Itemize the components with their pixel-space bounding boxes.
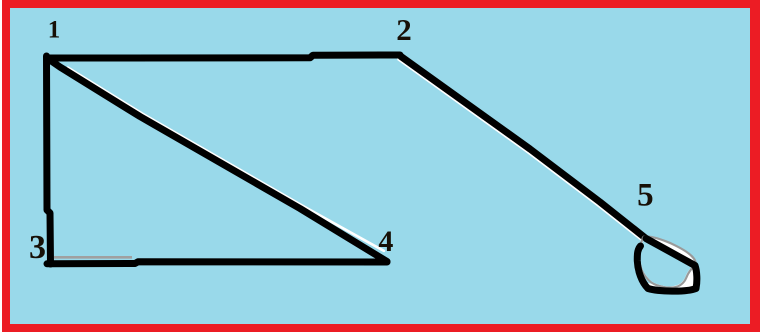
svg-text:4: 4: [378, 225, 393, 258]
loop at node 5: black outline stroke: [637, 239, 697, 292]
wire 1-4 (diagonal): [47, 58, 387, 262]
loop at node 5: white gap fill lower right: [646, 258, 699, 294]
white highlight above wire 1-4: [68, 68, 384, 251]
wire 1-2 (top edge): [47, 55, 400, 58]
svg-text:3: 3: [29, 229, 46, 266]
svg-text:5: 5: [637, 178, 654, 214]
svg-text:2: 2: [396, 12, 412, 47]
wire 1-3 (left edge): [47, 56, 51, 264]
wire 3-4 (bottom edge): [47, 262, 387, 264]
wire 2-5 (diagonal): [401, 57, 646, 239]
gray double-line above wire 3-4: [54, 256, 132, 259]
svg-text:1: 1: [48, 16, 61, 43]
white highlight below wire 2-5: [399, 60, 644, 242]
loop at node 5: white ellipse ghost with gray outline: [639, 236, 696, 287]
